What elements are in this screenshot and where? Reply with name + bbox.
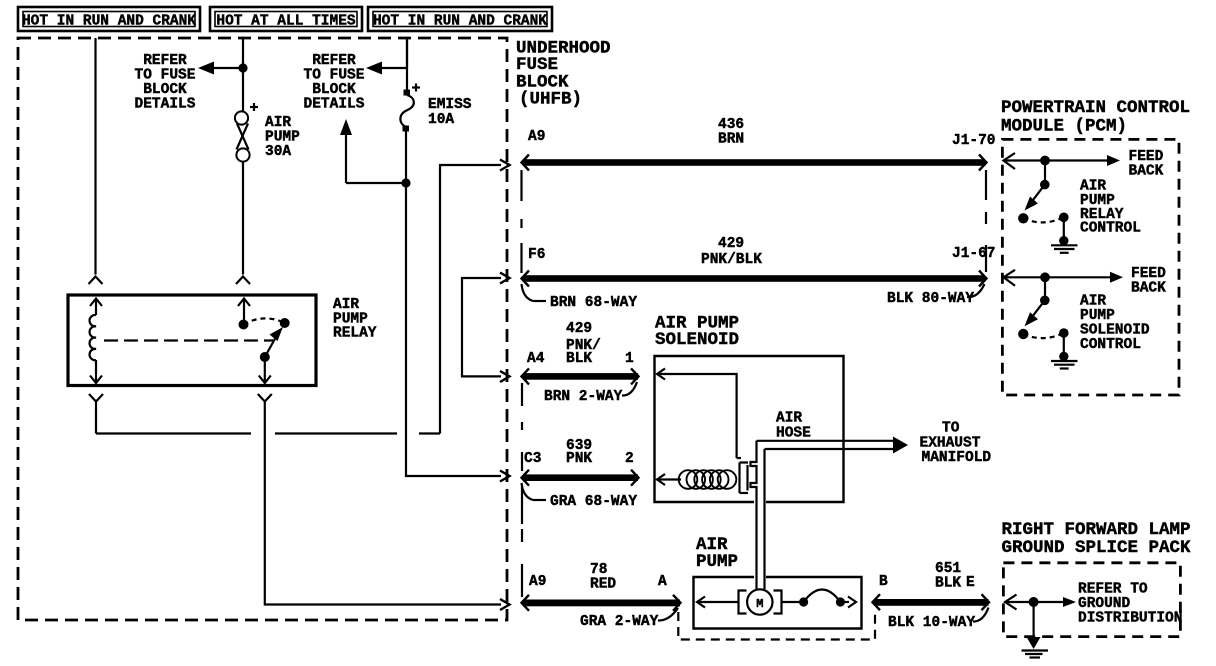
svg-text:CONTROL: CONTROL — [1080, 221, 1141, 237]
connector label BRN 2-WAY — [544, 382, 637, 405]
connector face line right of 436/429 — [985, 170, 987, 272]
svg-text:PUMP: PUMP — [696, 552, 738, 572]
connector label GRA 68-WAY — [522, 483, 638, 510]
svg-text:429: 429 — [718, 236, 744, 252]
wire relay switch to A9 terminal (78 circuit) — [265, 410, 510, 610]
connector label BLK 10-WAY — [888, 608, 989, 632]
solenoid pin 2 wire with chevron — [657, 474, 681, 485]
label FEED BACK 1 — [1129, 149, 1164, 180]
wire arrow to fuse block details 1 — [198, 62, 243, 75]
air pump motor M — [739, 589, 782, 614]
connector face line left of 436/429 — [520, 170, 522, 273]
driver link — [1044, 277, 1046, 300]
svg-text:HOT IN RUN AND CRANK: HOT IN RUN AND CRANK — [373, 14, 547, 30]
dashed throw arc — [1023, 217, 1064, 222]
chevron at J1-70 pin — [1004, 153, 1016, 169]
label REFER TO FUSE BLOCK DETAILS 2 — [304, 53, 365, 112]
svg-text:30A: 30A — [265, 144, 291, 160]
value label 429 PNK/ BLK — [527, 321, 634, 367]
connector label BLK 80-WAY — [887, 284, 985, 307]
svg-text:HOT AT ALL TIMES: HOT AT ALL TIMES — [216, 14, 356, 30]
air hose tube vertical — [751, 441, 765, 589]
PCM dashed box — [1002, 139, 1179, 395]
svg-text:BACK: BACK — [1129, 164, 1164, 180]
air pump terminal A wire with chevron — [697, 597, 739, 608]
splice node — [1005, 597, 1076, 607]
relay switch pin arrow (bottom) — [259, 357, 271, 383]
label AIR PUMP SOLENOID — [655, 314, 739, 351]
svg-text:E: E — [966, 575, 975, 591]
svg-text:A: A — [658, 574, 667, 590]
connector face line left of A4/C3 — [521, 383, 523, 471]
svg-text:GROUND SPLICE PACK: GROUND SPLICE PACK — [1002, 538, 1192, 558]
ground — [1051, 244, 1078, 246]
svg-text:FEED: FEED — [1129, 149, 1164, 165]
wire bar 639 PNK (C3 to solenoid 2) — [522, 470, 639, 486]
ground stem — [1063, 217, 1065, 238]
svg-text:BLK 80-WAY: BLK 80-WAY — [887, 291, 974, 307]
node splice below EMISS fuse — [401, 178, 410, 187]
wire EMISS fuse down to C3 terminal — [406, 131, 510, 482]
solenoid coil winding — [679, 470, 737, 489]
svg-text:CONTROL: CONTROL — [1080, 337, 1141, 353]
relay switch dashed throw arc — [244, 318, 285, 324]
driver arm with arrow — [1033, 185, 1045, 200]
label AIR PUMP 30A — [265, 115, 300, 160]
svg-text:PNK: PNK — [566, 451, 592, 467]
relay switch pin arrow (top) — [238, 299, 250, 323]
ground stem — [1063, 333, 1065, 354]
relay box AIR PUMP RELAY — [68, 295, 316, 386]
splice pack chevron at pin E — [1005, 595, 1017, 610]
value label 78 RED — [529, 562, 667, 593]
svg-text:PUMP: PUMP — [265, 129, 300, 145]
dashed harness boundary box (left large) — [18, 38, 507, 620]
air pump box — [694, 577, 862, 629]
svg-text:HOT IN RUN AND CRANK: HOT IN RUN AND CRANK — [22, 14, 196, 30]
label REFER TO GROUND DISTRIBUTION — [1078, 582, 1182, 627]
solenoid pin 1 wire with chevron — [657, 369, 737, 459]
svg-text:TO FUSE: TO FUSE — [135, 67, 196, 83]
wire bar 651 BLK (pump B to splice E) — [873, 594, 990, 610]
connector label GRA 2-WAY — [580, 608, 678, 630]
svg-text:1: 1 — [625, 351, 634, 367]
svg-text:MODULE (PCM): MODULE (PCM) — [1001, 117, 1127, 137]
wire breaker to relay switch — [242, 162, 244, 275]
node on feed back wire — [1040, 272, 1050, 282]
label AIR PUMP SOLENOID CONTROL — [1080, 294, 1150, 353]
svg-text:EMISS: EMISS — [428, 97, 472, 113]
svg-text:J1-70: J1-70 — [952, 133, 996, 149]
wire from HOT AT ALL TIMES to breaker — [242, 38, 244, 112]
svg-text:RELAY: RELAY — [333, 326, 377, 342]
dashed throw arc — [1023, 333, 1064, 338]
connector chevron above relay coil — [89, 277, 103, 285]
label POWERTRAIN CONTROL MODULE (PCM) — [1001, 98, 1190, 137]
svg-text:J1-67: J1-67 — [952, 246, 996, 262]
svg-text:(UHFB): (UHFB) — [519, 90, 582, 110]
value label 436 BRN — [718, 117, 744, 148]
splice ground — [1022, 602, 1049, 658]
label REFER TO FUSE BLOCK DETAILS 1 — [135, 53, 196, 112]
relay switch movable arm with arrow — [265, 327, 283, 357]
relay switch common node — [239, 320, 249, 330]
air pump internal switch — [782, 590, 857, 608]
svg-text:HOSE: HOSE — [776, 426, 811, 442]
svg-text:GRA 2-WAY: GRA 2-WAY — [580, 614, 659, 630]
svg-text:POWERTRAIN CONTROL: POWERTRAIN CONTROL — [1001, 98, 1190, 118]
relay switch contact node — [280, 318, 290, 328]
svg-text:B: B — [879, 574, 888, 590]
chevron at J1-67 pin — [1004, 270, 1016, 286]
wire bar 429 PNK/BLK (F6 to J1-67) — [522, 271, 987, 287]
relay coil pin arrow (bottom) — [90, 360, 102, 383]
label AIR PUMP RELAY — [333, 297, 377, 342]
power label box HOT AT ALL TIMES — [210, 7, 362, 31]
node splice at fuse details branch 1 — [238, 63, 247, 72]
feed back wire — [1004, 276, 1113, 278]
air pump dashed enclosure — [678, 612, 875, 640]
wire from HOT IN RUN AND CRANK to relay coil — [94, 38, 96, 275]
wire from HOT IN RUN AND CRANK (right) to EMISS fuse — [406, 38, 408, 91]
wire bar 78 RED (A9 to pump A) — [522, 595, 681, 611]
connector chevron below relay coil — [89, 394, 103, 410]
driver arm with arrow — [1033, 300, 1045, 315]
label EMISS 10A — [428, 97, 472, 128]
ground splice pack dashed box — [1003, 563, 1180, 637]
svg-text:BACK: BACK — [1131, 281, 1166, 297]
value label 639 PNK — [524, 438, 634, 467]
svg-text:TO: TO — [942, 421, 960, 437]
connector chevron below relay switch — [258, 394, 272, 410]
svg-text:C3: C3 — [524, 451, 541, 467]
svg-text:BLK: BLK — [566, 351, 592, 367]
label TO EXHAUST MANIFOLD — [920, 421, 992, 467]
circuit breaker AIR PUMP 30A — [235, 103, 258, 162]
PCM relay control circuit — [1004, 153, 1121, 253]
label AIR PUMP RELAY CONTROL — [1080, 179, 1141, 237]
svg-text:A9: A9 — [528, 129, 545, 145]
svg-text:BLK: BLK — [935, 576, 961, 592]
svg-text:PNK/BLK: PNK/BLK — [701, 252, 762, 268]
svg-text:AIR: AIR — [776, 411, 802, 427]
label AIR PUMP — [696, 535, 738, 572]
svg-text:TO FUSE: TO FUSE — [304, 67, 365, 83]
power label box HOT IN RUN AND CRANK (left) — [18, 7, 200, 31]
relay coil winding — [90, 315, 96, 360]
svg-text:F6: F6 — [528, 247, 545, 263]
ground — [1051, 360, 1078, 362]
connector chevron above relay switch — [236, 277, 250, 285]
driver link — [1044, 161, 1046, 185]
wire arrow to fuse block details 2 — [366, 38, 407, 75]
svg-text:BRN 68-WAY: BRN 68-WAY — [550, 295, 637, 311]
relay coil pin arrow (top) — [90, 299, 102, 316]
air hose to exhaust with arrow — [757, 437, 909, 454]
svg-text:A9: A9 — [529, 574, 546, 590]
branch wire with up arrow (from fuse details) — [340, 119, 406, 183]
label FEED BACK 2 — [1131, 266, 1166, 297]
connector face line below C3 — [521, 486, 523, 597]
wire jumper F6 to A4 (429 circuit) — [462, 273, 510, 383]
svg-text:2: 2 — [625, 451, 634, 467]
svg-text:BRN 2-WAY: BRN 2-WAY — [544, 389, 623, 405]
solenoid box — [655, 356, 844, 502]
svg-text:DETAILS: DETAILS — [135, 96, 196, 112]
PCM solenoid control circuit — [1004, 270, 1124, 369]
svg-text:BLK 10-WAY: BLK 10-WAY — [888, 615, 975, 631]
label UNDERHOOD FUSE BLOCK (UHFB) — [516, 39, 611, 110]
wire bar 436 BRN (A9 to J1-70) — [522, 155, 987, 171]
svg-text:DISTRIBUTION: DISTRIBUTION — [1078, 611, 1182, 627]
svg-text:RED: RED — [590, 577, 616, 593]
value label 651 BLK E — [879, 561, 975, 592]
power label box HOT IN RUN AND CRANK (right) — [368, 7, 552, 31]
wire relay coil to A9 terminal (436 circuit) — [96, 160, 510, 434]
label RIGHT FORWARD LAMP GROUND SPLICE PACK — [1002, 520, 1192, 558]
svg-text:BRN: BRN — [718, 132, 744, 148]
svg-text:DETAILS: DETAILS — [304, 96, 365, 112]
wire bar 429 PNK/BLK (A4 to solenoid 1) — [522, 368, 639, 384]
svg-text:RIGHT FORWARD LAMP: RIGHT FORWARD LAMP — [1002, 520, 1191, 540]
value label 429 PNK/BLK — [701, 236, 762, 268]
svg-text:429: 429 — [566, 321, 592, 337]
relay actuation dashed link — [104, 339, 274, 341]
svg-text:10A: 10A — [428, 112, 454, 128]
node on feed back wire — [1040, 156, 1050, 166]
svg-text:SOLENOID: SOLENOID — [655, 330, 739, 350]
svg-text:A4: A4 — [527, 351, 545, 367]
svg-text:M: M — [756, 597, 763, 611]
connector label BRN 68-WAY — [522, 284, 638, 311]
svg-text:GRA 68-WAY: GRA 68-WAY — [550, 494, 637, 510]
relay switch arm node — [260, 352, 270, 362]
solenoid valve plunger — [737, 458, 748, 493]
feed back wire — [1004, 159, 1110, 161]
svg-text:MANIFOLD: MANIFOLD — [922, 450, 992, 466]
fuse EMISS 10A — [400, 84, 420, 132]
label AIR HOSE — [776, 411, 811, 442]
